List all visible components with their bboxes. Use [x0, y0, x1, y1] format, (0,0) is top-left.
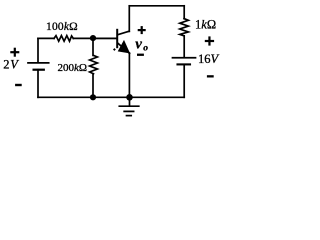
svg-text:100kΩ: 100kΩ: [46, 21, 78, 33]
svg-text:v: v: [135, 36, 142, 52]
svg-text:16V: 16V: [198, 52, 220, 66]
svg-text:1kΩ: 1kΩ: [195, 17, 216, 31]
svg-text:200kΩ: 200kΩ: [58, 62, 88, 74]
svg-text:o: o: [143, 43, 148, 53]
svg-text:2V: 2V: [3, 58, 19, 72]
